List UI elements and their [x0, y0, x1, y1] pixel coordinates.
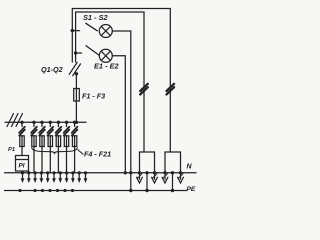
- fuse column 4 (group F4 - F21): [48, 136, 52, 147]
- svg-text:Q1-Q2: Q1-Q2: [41, 65, 63, 74]
- supply slashes (incoming line marks): [7, 114, 23, 127]
- arrow group line 6 (to load): [52, 178, 56, 183]
- node N-bus group tap 1: [21, 171, 24, 174]
- wire box2 right leg stub: [180, 173, 182, 179]
- cable mark, column 7: [72, 127, 78, 136]
- node N-bus group tap 9: [71, 171, 74, 174]
- svg-text:E1 - E2: E1 - E2: [94, 62, 120, 71]
- wire fuse to meter P1: [21, 147, 23, 156]
- wire bus to cable mark, column 3: [41, 122, 43, 126]
- node E2 on N bus: [124, 171, 127, 174]
- switch S1: [86, 23, 98, 31]
- node box2 center on PE: [171, 189, 174, 192]
- node N-bus group tap 8: [65, 171, 68, 174]
- cable mark, column 2: [31, 127, 37, 136]
- svg-text:PE: PE: [187, 186, 196, 193]
- wire fuse column 5 to N bus: [57, 147, 59, 173]
- cable mark, column 6: [64, 127, 70, 136]
- cable mark on riser to box2: [167, 84, 175, 95]
- node PE tap 4: [48, 189, 51, 192]
- svg-text:S1 - S2: S1 - S2: [83, 13, 109, 22]
- wire fuse column 6 to N bus: [66, 147, 68, 173]
- wire group line 5: [47, 173, 49, 179]
- fuse column 1 (group F4 - F21): [20, 136, 24, 147]
- fuse column 6 (group F4 - F21): [64, 136, 68, 147]
- arrow box2 right leg: [178, 177, 184, 183]
- node N-bus group tap 4: [40, 171, 43, 174]
- node box1 right leg on N bus: [153, 171, 156, 174]
- wire E2 to N bus: [112, 56, 125, 173]
- arrow group line 1 (to load): [21, 178, 25, 183]
- box 1 (floor panel): [140, 152, 155, 173]
- node PE tap 7: [71, 189, 74, 192]
- switch S2: [86, 46, 99, 55]
- node bus tap 4: [49, 121, 52, 124]
- wire bus to cable mark, column 6: [66, 122, 68, 126]
- wire bus to cable mark, column 5: [57, 122, 59, 126]
- arrow box2 left leg: [162, 177, 168, 183]
- wire group line 9: [72, 173, 74, 179]
- svg-text:F4 - F21: F4 - F21: [84, 150, 111, 159]
- wire box2 center to PE: [172, 173, 174, 191]
- wire group line 4: [40, 173, 42, 179]
- node box2 center on N: [171, 171, 174, 174]
- wire fuse F1-F3 to main bus: [75, 101, 77, 122]
- node PE tap 2: [33, 189, 36, 192]
- node N-bus group tap 6: [52, 171, 55, 174]
- wire group line 11: [85, 173, 87, 179]
- node box1 center on PE: [145, 189, 148, 192]
- wire fuse column 4 to N bus: [49, 147, 51, 173]
- node E1 on N bus: [129, 171, 132, 174]
- wire fuse column 7 to N bus: [74, 147, 76, 173]
- box 2 (floor panel): [165, 152, 181, 173]
- wire group line 6: [53, 173, 55, 179]
- node PE tap 5: [56, 189, 59, 192]
- wire bus to cable mark, column 1: [21, 122, 23, 126]
- switch Q1-Q2 (double blade): [69, 62, 80, 75]
- wire Q1-Q2 to fuse F1-F3: [75, 74, 77, 89]
- svg-text:N: N: [187, 164, 193, 171]
- node PE tap 1: [18, 189, 21, 192]
- wire bus to cable mark, column 2: [33, 122, 35, 126]
- wire box1 right leg stub: [154, 173, 156, 179]
- wire group line 2: [28, 173, 30, 179]
- PE bus: [5, 190, 188, 192]
- leader to F4 - F21 label: [78, 150, 84, 155]
- tick box2 left leg: [163, 174, 168, 179]
- fuse column 3 (group F4 - F21): [40, 136, 44, 147]
- node box2 left leg on N bus: [163, 171, 166, 174]
- arrow group line 11 (to load): [84, 178, 88, 183]
- N bus: [5, 172, 197, 174]
- arrow group line 3 (to load): [33, 178, 37, 183]
- node N-bus group tap 2: [27, 171, 30, 174]
- wire group line 8: [66, 173, 68, 179]
- node PE tap 6: [63, 189, 66, 192]
- arrow group line 4 (to load): [40, 178, 44, 183]
- wire fuse column 3 to N bus: [41, 147, 43, 173]
- svg-text:PI: PI: [19, 163, 25, 170]
- tick box1 left leg: [137, 174, 142, 179]
- cable mark, column 5: [56, 127, 62, 136]
- wire inner rail (left riser up, top rail, riser down to box1): [76, 12, 144, 152]
- svg-text:F1 - F3: F1 - F3: [82, 92, 105, 101]
- node bus tap 6: [65, 121, 68, 124]
- arrow box1 left leg: [137, 177, 143, 183]
- wire box1 left leg stub: [139, 173, 141, 179]
- wire E1 to N and PE: [112, 31, 131, 191]
- arrow group line 9 (to load): [71, 178, 75, 183]
- wire bus to cable mark, column 4: [49, 122, 51, 126]
- wire S1 tap: [72, 30, 79, 32]
- wire group line 10: [78, 173, 80, 179]
- wire group line 3: [34, 173, 36, 179]
- node bus tap 3: [40, 121, 43, 124]
- lamp E1: [99, 25, 112, 38]
- node S1 tap: [71, 29, 74, 32]
- fuse column 5 (group F4 - F21): [56, 136, 60, 147]
- arrow group line 5 (to load): [46, 178, 50, 183]
- brace for F4 - F21 group: [32, 148, 84, 155]
- wire group line 1: [22, 173, 24, 179]
- tick box2 right leg: [178, 174, 183, 179]
- fuse column 2 (group F4 - F21): [32, 136, 36, 147]
- cable mark on riser to box1: [140, 84, 148, 95]
- node N-bus group tap 7: [59, 171, 62, 174]
- wire outer rail (left riser up, top rail, right riser down to box2): [72, 9, 170, 153]
- svg-text:P1: P1: [8, 147, 15, 153]
- cable mark, column 1: [19, 127, 25, 136]
- node PE tap 3: [41, 189, 44, 192]
- node N-bus group tap 11: [84, 171, 87, 174]
- wire box1 center to PE: [146, 173, 148, 191]
- wire group line 7: [59, 173, 61, 179]
- node Q1-Q2 output: [75, 72, 78, 75]
- node box1 left leg on N bus: [138, 171, 141, 174]
- node S2 tap: [74, 51, 77, 54]
- arrow group line 7 (to load): [58, 178, 62, 183]
- node N-bus group tap 3: [34, 171, 37, 174]
- wire fuse column 2 to N bus: [33, 147, 35, 173]
- cable mark, column 4: [48, 127, 54, 136]
- node bus tap 1: [20, 121, 23, 124]
- wire box2 left leg stub: [164, 173, 166, 179]
- node main feed on bus: [75, 121, 78, 124]
- arrow box1 right leg: [152, 177, 158, 183]
- tick box1 right leg: [152, 174, 157, 179]
- arrow group line 8 (to load): [65, 178, 69, 183]
- cable mark, column 3: [39, 127, 45, 136]
- node box1 center on N: [145, 171, 148, 174]
- fuse F1-F3: [74, 89, 80, 102]
- arrow group line 2 (to load): [27, 178, 31, 183]
- node bus tap 5: [57, 121, 60, 124]
- wire S2 tap: [76, 52, 82, 54]
- node bus tap 2: [32, 121, 35, 124]
- lamp E2: [99, 49, 112, 62]
- node N-bus group tap 10: [78, 171, 81, 174]
- node box2 right leg on N bus: [179, 171, 182, 174]
- main bus: [5, 121, 86, 123]
- wire bus to cable mark, column 7: [74, 122, 76, 126]
- node bus tap 7: [73, 121, 76, 124]
- fuse column 7 (group F4 - F21): [72, 136, 76, 147]
- node N-bus group tap 5: [46, 171, 49, 174]
- node E1 on PE bus: [129, 189, 132, 192]
- meter P1 box: [16, 156, 29, 172]
- arrow group line 10 (to load): [77, 178, 81, 183]
